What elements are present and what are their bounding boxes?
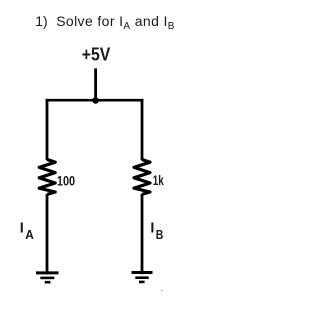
wire: top horizontal bus	[46, 99, 144, 102]
svg-text:Solve for IA and IB: Solve for IA and IB	[56, 13, 175, 32]
wire: right branch lower	[141, 194, 144, 274]
resistor R2 (1k)	[134, 160, 150, 195]
svg-text:+5V: +5V	[82, 44, 111, 65]
title: "1) Solve for IA and IB"	[35, 13, 175, 32]
svg-text:A: A	[25, 227, 34, 242]
label: current IA	[20, 220, 35, 241]
label: current IB	[150, 220, 163, 241]
wire: right branch upper	[141, 99, 144, 160]
svg-text:1k: 1k	[153, 172, 164, 188]
svg-text:1): 1)	[35, 13, 47, 29]
svg-text:100: 100	[57, 172, 75, 188]
wire: +5V lead (vertical)	[94, 68, 97, 100]
svg-text:I: I	[150, 220, 154, 236]
wire: left branch lower	[46, 194, 49, 275]
wire: left branch upper	[46, 99, 49, 160]
speck artifact bottom right	[161, 290, 163, 291]
resistor R1 (100 ohm)	[39, 160, 55, 195]
node: junction dot at +5V tap	[92, 97, 99, 104]
ground (right)	[132, 273, 153, 282]
svg-text:I: I	[20, 220, 24, 236]
svg-text:B: B	[156, 228, 164, 242]
ground (left)	[36, 273, 59, 282]
